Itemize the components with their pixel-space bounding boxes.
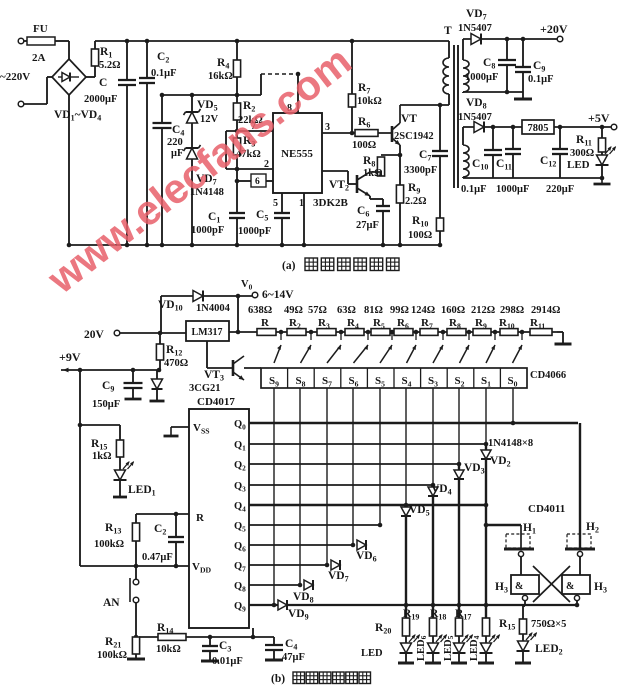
svg-text:LED1: LED1 xyxy=(128,484,156,498)
svg-text:10kΩ: 10kΩ xyxy=(156,644,181,655)
svg-text:81Ω: 81Ω xyxy=(364,305,383,316)
svg-text:1000pF: 1000pF xyxy=(238,226,271,237)
svg-text:150μF: 150μF xyxy=(92,399,120,410)
svg-text:220: 220 xyxy=(167,137,183,148)
svg-text:C: C xyxy=(99,77,107,89)
svg-text:0.01μF: 0.01μF xyxy=(212,656,243,667)
svg-text:5.2Ω: 5.2Ω xyxy=(99,60,121,71)
svg-text:R: R xyxy=(196,512,205,524)
svg-text:49Ω: 49Ω xyxy=(284,305,303,316)
svg-text:VT: VT xyxy=(401,113,417,125)
svg-text:1N4148×8: 1N4148×8 xyxy=(488,438,533,449)
svg-text:NE555: NE555 xyxy=(281,148,313,160)
svg-text:1N5407: 1N5407 xyxy=(458,112,492,123)
svg-text:2.2Ω: 2.2Ω xyxy=(405,196,427,207)
svg-text:T: T xyxy=(444,25,452,37)
svg-text:0.1μF: 0.1μF xyxy=(528,74,554,85)
svg-text:1N5407: 1N5407 xyxy=(458,23,492,34)
svg-text:7805: 7805 xyxy=(528,123,549,134)
svg-text:(a): (a) xyxy=(282,260,296,272)
svg-text:27μF: 27μF xyxy=(356,220,379,231)
svg-text:CD4066: CD4066 xyxy=(530,370,566,381)
svg-text:2914Ω: 2914Ω xyxy=(531,305,560,316)
svg-text:63Ω: 63Ω xyxy=(337,305,356,316)
svg-text:10kΩ: 10kΩ xyxy=(357,96,382,107)
svg-text:1000μF: 1000μF xyxy=(465,72,498,83)
svg-text:AN: AN xyxy=(103,597,120,609)
svg-text:1000μF: 1000μF xyxy=(496,184,529,195)
svg-text:100kΩ: 100kΩ xyxy=(94,539,124,550)
svg-text:212Ω: 212Ω xyxy=(471,305,495,316)
svg-text:2SC1942: 2SC1942 xyxy=(394,131,434,142)
svg-text:160Ω: 160Ω xyxy=(441,305,465,316)
svg-text:100Ω: 100Ω xyxy=(408,230,432,241)
svg-text:2A: 2A xyxy=(32,52,46,64)
svg-text:(b): (b) xyxy=(271,673,285,685)
svg-text:FU: FU xyxy=(33,23,48,35)
svg-text:+9V: +9V xyxy=(59,350,81,364)
svg-text:100kΩ: 100kΩ xyxy=(97,650,127,661)
svg-text:2000μF: 2000μF xyxy=(84,94,117,105)
svg-text:LED: LED xyxy=(361,648,383,659)
svg-text:0.47μF: 0.47μF xyxy=(142,552,173,563)
svg-text:2: 2 xyxy=(264,159,269,170)
svg-text:1000pF: 1000pF xyxy=(191,225,224,236)
svg-text:220μF: 220μF xyxy=(546,184,574,195)
svg-text:6: 6 xyxy=(255,177,260,187)
svg-text:1kΩ: 1kΩ xyxy=(92,451,112,462)
svg-text:6~14V: 6~14V xyxy=(262,289,294,301)
svg-text:0.1μF: 0.1μF xyxy=(151,68,177,79)
svg-text:750Ω×5: 750Ω×5 xyxy=(531,619,566,630)
svg-text:0.1μF: 0.1μF xyxy=(461,184,487,195)
svg-text:100Ω: 100Ω xyxy=(352,140,376,151)
svg-text:47μF: 47μF xyxy=(282,652,305,663)
svg-text:3300pF: 3300pF xyxy=(404,165,437,176)
svg-text:3CG21: 3CG21 xyxy=(189,383,221,394)
svg-text:LED2: LED2 xyxy=(535,643,563,657)
svg-text:CD4017: CD4017 xyxy=(197,396,235,408)
svg-text:12V: 12V xyxy=(200,114,219,125)
svg-text:16kΩ: 16kΩ xyxy=(208,71,233,82)
svg-text:CD4011: CD4011 xyxy=(528,503,565,515)
svg-text:298Ω: 298Ω xyxy=(500,305,524,316)
svg-text:638Ω: 638Ω xyxy=(248,305,272,316)
svg-text:+20V: +20V xyxy=(540,22,568,36)
svg-text:3DK2B: 3DK2B xyxy=(313,197,349,209)
svg-text:300Ω: 300Ω xyxy=(570,148,594,159)
svg-text:470Ω: 470Ω xyxy=(164,358,188,369)
svg-text:57Ω: 57Ω xyxy=(308,305,327,316)
svg-text:+5V: +5V xyxy=(588,111,610,125)
svg-text:&: & xyxy=(566,581,574,592)
svg-text:LM317: LM317 xyxy=(191,327,222,338)
svg-text:5: 5 xyxy=(273,198,278,209)
svg-text:~220V: ~220V xyxy=(0,71,30,83)
svg-text:99Ω: 99Ω xyxy=(390,305,409,316)
svg-text:1kΩ: 1kΩ xyxy=(363,168,383,179)
svg-text:3: 3 xyxy=(325,122,330,133)
svg-text:R: R xyxy=(261,317,270,329)
svg-text:1N4004: 1N4004 xyxy=(196,303,231,314)
svg-text:20V: 20V xyxy=(84,329,105,341)
svg-text:124Ω: 124Ω xyxy=(411,305,435,316)
svg-text:VD1~VD4: VD1~VD4 xyxy=(54,109,101,123)
svg-text:&: & xyxy=(515,581,523,592)
svg-text:LED: LED xyxy=(567,159,590,171)
svg-text:1: 1 xyxy=(299,198,304,209)
